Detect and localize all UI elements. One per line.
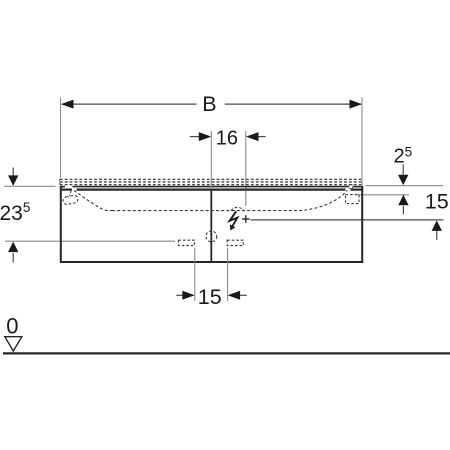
dimension B arrow left (61, 100, 74, 109)
dimension 15 bottom extension line right (227, 248, 229, 302)
svg-text:B: B (202, 92, 216, 116)
washtop dashed bottom line (60, 184, 362, 186)
floor datum line (3, 352, 450, 354)
cutout dashed rectangle left (179, 240, 195, 245)
cable dashed circle on divider (206, 231, 217, 242)
dimension 23.5 label (0, 200, 30, 225)
trap dashed inlet (70, 191, 71, 196)
dimension B extension line left (60, 98, 62, 179)
cabinet left edge (60, 186, 62, 263)
svg-text:15: 15 (425, 189, 449, 213)
socket dashed rectangle (346, 195, 360, 204)
dimension B label (202, 92, 216, 116)
washtop bottom solid edge (60, 186, 362, 188)
dimension 23.5 bottom line (5, 240, 175, 242)
cabinet top edge (60, 189, 363, 191)
socket height reference line (251, 219, 444, 221)
dimension 23.5 arrow down (8, 168, 18, 186)
dimension 16 label (216, 127, 238, 149)
svg-text:235: 235 (0, 200, 30, 225)
dimension 15 right label (425, 189, 449, 213)
cabinet bottom edge (60, 261, 363, 263)
dimension 2.5 label (394, 145, 413, 168)
overflow dashed circle right (349, 185, 353, 189)
svg-text:16: 16 (216, 127, 238, 149)
dimension 2.5 arrow down (398, 165, 408, 186)
dimension 15 bottom line left with arrow (176, 291, 195, 300)
dimension 16 line left with arrow (190, 132, 212, 141)
dimension B arrow right (350, 100, 363, 109)
washtop bottom reference line right (357, 194, 409, 196)
washtop top reference line right (366, 185, 444, 187)
dimension 23.5 arrow up (8, 242, 18, 263)
svg-text:25: 25 (394, 145, 413, 168)
svg-text:15: 15 (198, 285, 222, 309)
dimension 2.5 arrow up (398, 195, 408, 214)
power symbol lightning bolt (230, 211, 238, 230)
washtop dashed middle line (60, 181, 362, 183)
dimension B line (62, 103, 361, 105)
cutout dashed rectangle right (227, 240, 243, 245)
basin outline dashed bottom line (112, 210, 299, 212)
basin drain dashed arc (231, 207, 244, 210)
dimension 15 bottom extension line left (194, 248, 196, 302)
cabinet right edge (361, 186, 363, 263)
dimension B extension line right (361, 98, 363, 187)
cabinet center divider (210, 131, 212, 261)
washtop dashed top line (60, 178, 362, 180)
dimension 16 line right with arrow (246, 132, 266, 141)
socket position cross marker (242, 215, 250, 223)
trap dashed capsule (62, 195, 78, 205)
basin outline dashed left curve (74, 191, 112, 211)
dimension 23.5 top line (4, 185, 56, 187)
washtop dashed left edge (59, 179, 61, 185)
dimension 15 right arrow up (432, 220, 442, 239)
datum label 0 (6, 314, 18, 339)
svg-text:0: 0 (6, 314, 18, 339)
dimension 16 extension line right (245, 131, 247, 206)
dimension 15 bottom label (198, 285, 222, 309)
datum triangle (5, 337, 22, 351)
dimension 15 bottom line right with arrow (228, 291, 247, 300)
basin outline dashed right curve (299, 190, 347, 210)
